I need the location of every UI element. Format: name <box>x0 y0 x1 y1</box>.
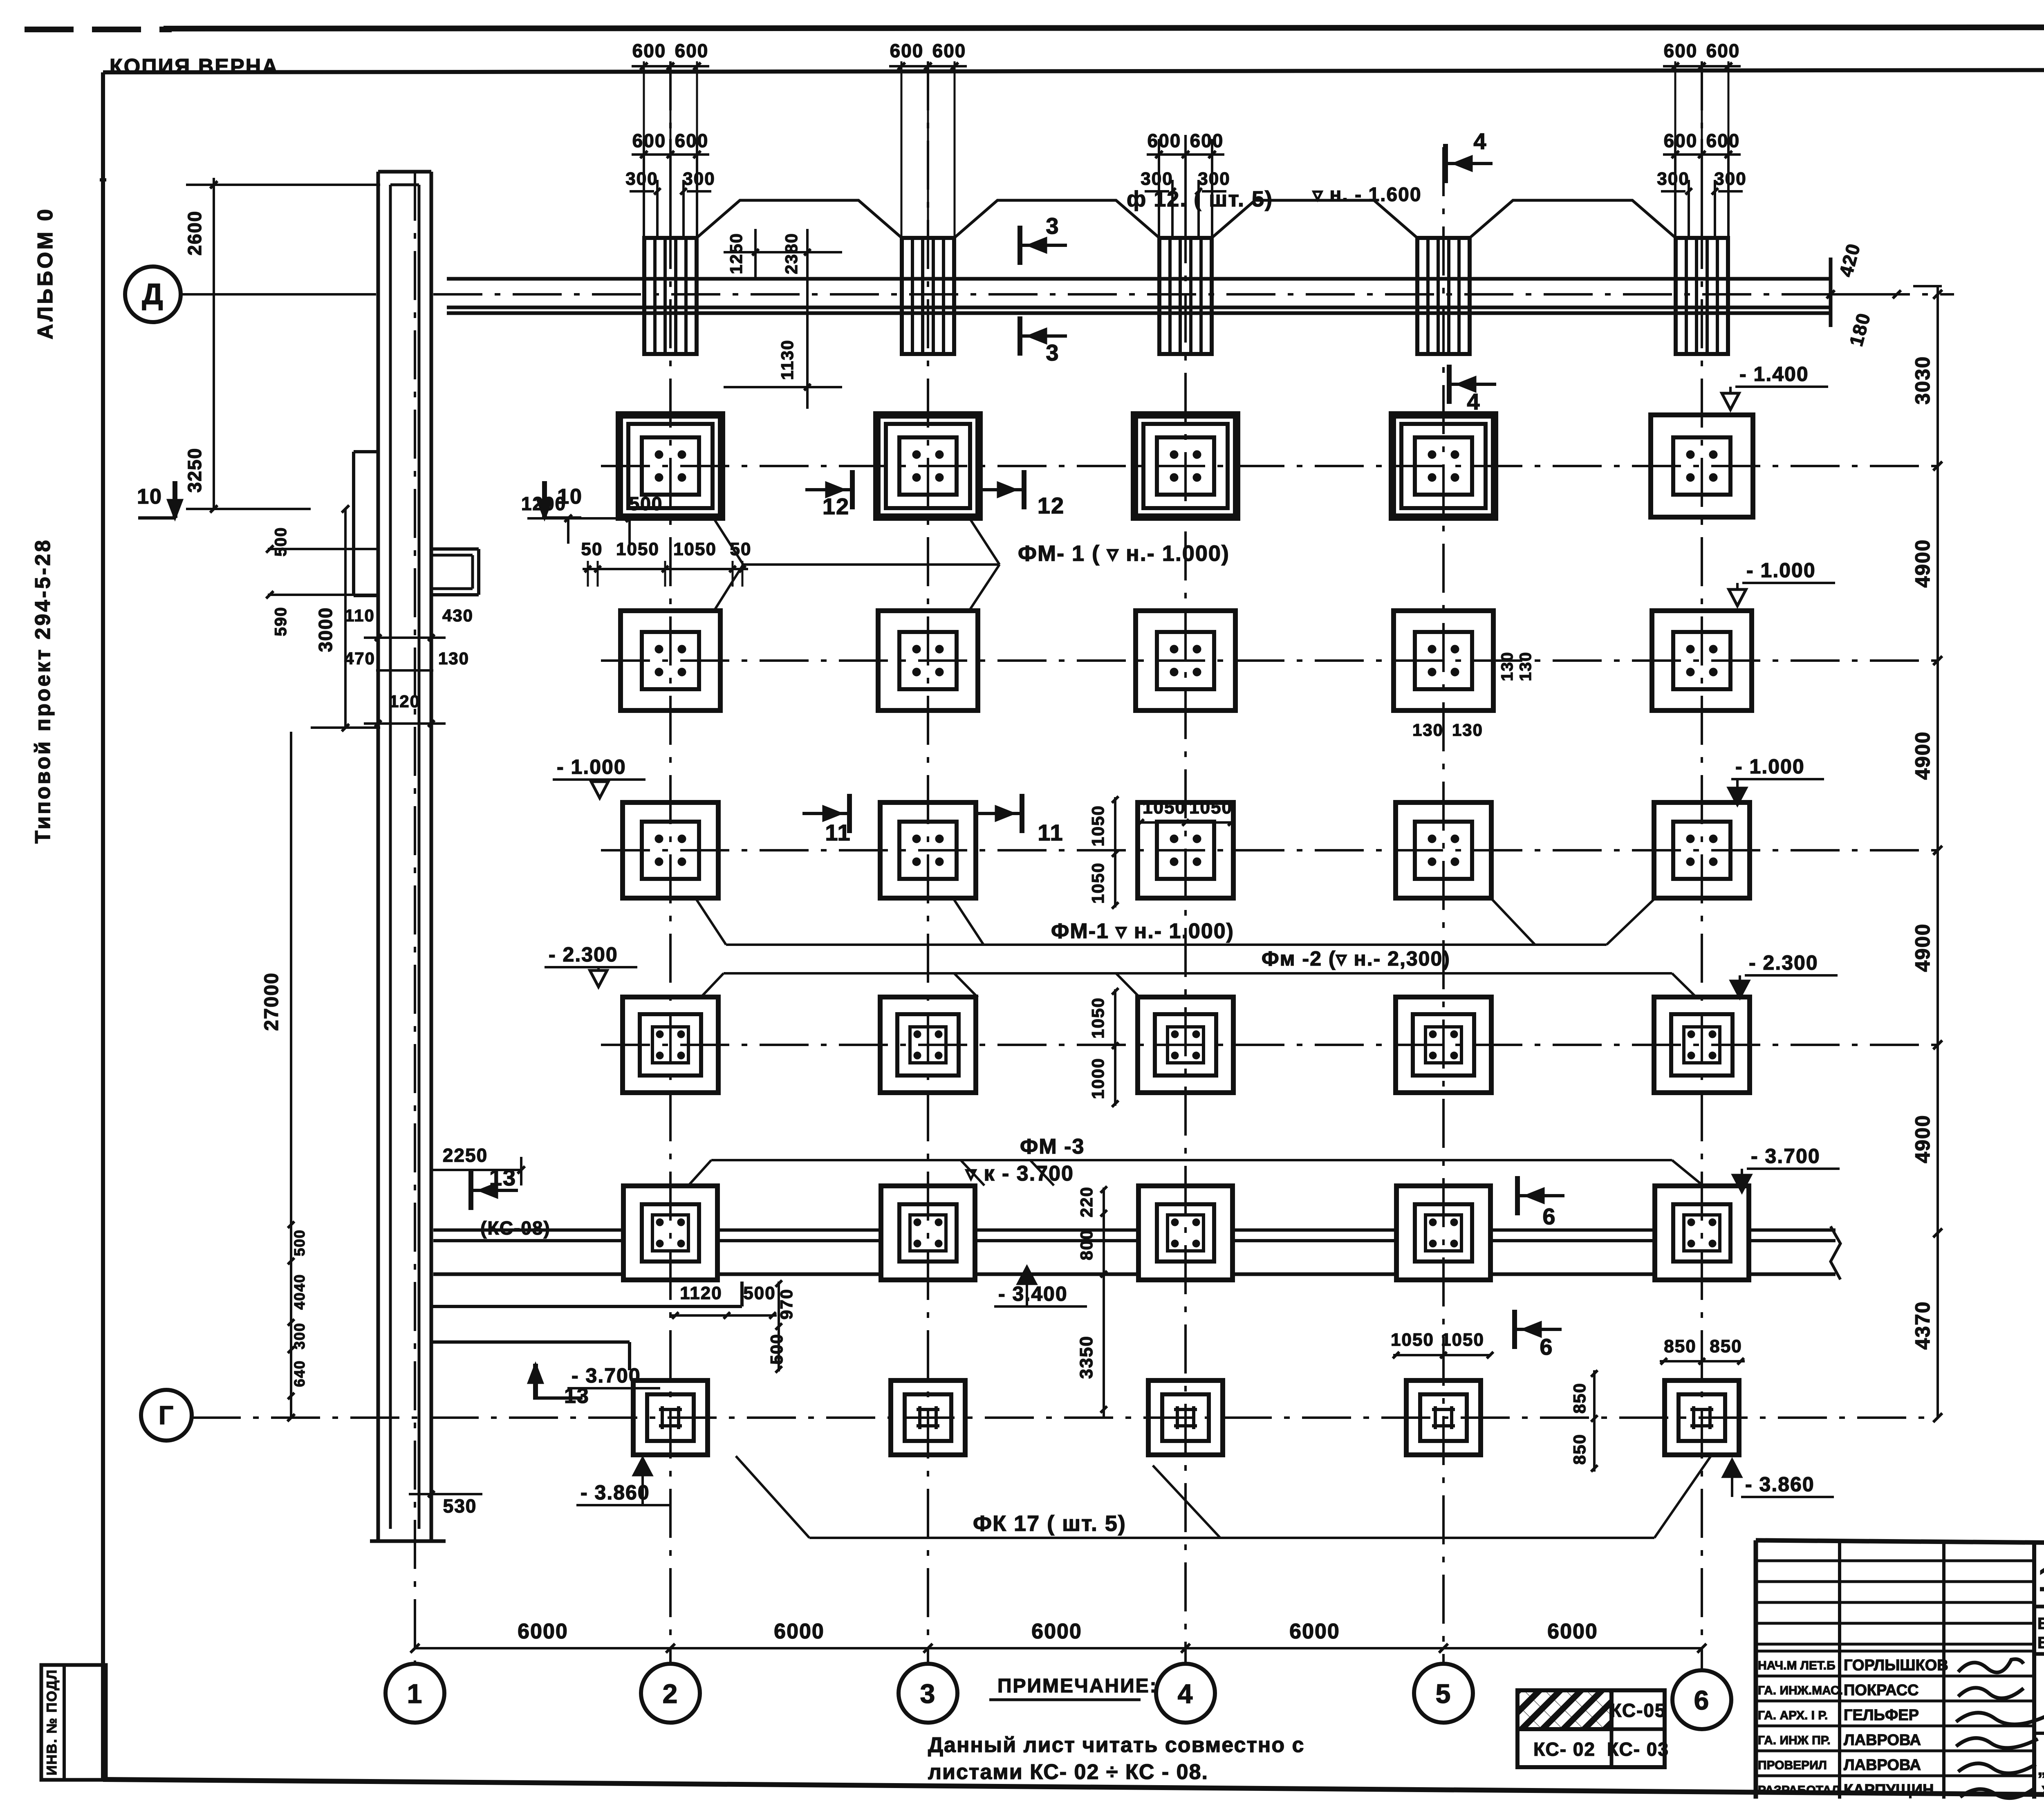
svg-text:850: 850 <box>1664 1336 1696 1356</box>
svg-text:Фм -2 (▿ н.- 2,300): Фм -2 (▿ н.- 2,300) <box>1262 947 1450 970</box>
svg-text:ГЕЛЬФЕР: ГЕЛЬФЕР <box>1844 1707 1919 1724</box>
svg-text:ФМ-1 ▿ н.- 1.000): ФМ-1 ▿ н.- 1.000) <box>1051 919 1234 943</box>
svg-text:590: 590 <box>272 607 290 636</box>
svg-text:- 3.860: - 3.860 <box>580 1481 650 1504</box>
svg-text:1000: 1000 <box>1088 1058 1107 1099</box>
svg-text:- 3.700: - 3.700 <box>572 1364 641 1387</box>
svg-text:640: 640 <box>291 1360 308 1387</box>
svg-text:130: 130 <box>1452 720 1483 739</box>
svg-text:1120: 1120 <box>680 1283 722 1303</box>
svg-text:10: 10 <box>137 485 162 509</box>
svg-text:500: 500 <box>629 493 663 514</box>
svg-text:Д: Д <box>142 278 164 311</box>
svg-text:4: 4 <box>1467 389 1480 415</box>
svg-text:3000: 3000 <box>315 607 336 652</box>
svg-text:ФМ- 1 ( ▿ н.- 1.000): ФМ- 1 ( ▿ н.- 1.000) <box>1018 541 1230 566</box>
svg-text:Г: Г <box>159 1400 174 1430</box>
svg-text:5: 5 <box>1436 1678 1452 1709</box>
svg-text:2: 2 <box>663 1678 679 1709</box>
svg-text:4900: 4900 <box>1911 731 1934 780</box>
svg-text:- 2.300: - 2.300 <box>1749 951 1818 974</box>
svg-text:800: 800 <box>1077 1229 1096 1260</box>
svg-text:▿ н. - 1.600: ▿ н. - 1.600 <box>1312 184 1422 206</box>
svg-text:1050: 1050 <box>1143 798 1186 818</box>
svg-text:530: 530 <box>443 1495 477 1517</box>
svg-text:АЛЬБОМ 0: АЛЬБОМ 0 <box>34 207 57 340</box>
svg-text:50: 50 <box>730 539 752 559</box>
svg-text:4900: 4900 <box>1911 1114 1934 1163</box>
svg-text:300: 300 <box>291 1322 308 1349</box>
svg-text:600: 600 <box>932 40 966 61</box>
svg-text:6: 6 <box>1540 1334 1553 1360</box>
svg-text:(КС-08): (КС-08) <box>480 1217 551 1239</box>
svg-text:3: 3 <box>920 1678 936 1709</box>
svg-text:300: 300 <box>1657 169 1689 189</box>
svg-text:120: 120 <box>389 692 420 711</box>
svg-text:50: 50 <box>581 539 603 559</box>
svg-text:4040: 4040 <box>291 1274 308 1310</box>
svg-text:11: 11 <box>825 820 851 845</box>
svg-text:ФМ -3: ФМ -3 <box>1020 1135 1085 1158</box>
svg-text:600: 600 <box>1148 130 1181 151</box>
svg-text:420: 420 <box>1835 241 1865 279</box>
svg-text:600: 600 <box>890 40 924 61</box>
svg-text:ГА. ИНЖ.МАС.: ГА. ИНЖ.МАС. <box>1758 1684 1843 1697</box>
svg-text:НАЧ.М ЛЕТ.Б: НАЧ.М ЛЕТ.Б <box>1758 1659 1836 1672</box>
svg-text:▿ к - 3.700: ▿ к - 3.700 <box>965 1162 1074 1185</box>
svg-text:600: 600 <box>675 130 709 151</box>
svg-text:500: 500 <box>291 1229 308 1256</box>
svg-text:ГА. ИНЖ ПР.: ГА. ИНЖ ПР. <box>1758 1734 1831 1747</box>
svg-text:6: 6 <box>1542 1203 1556 1229</box>
svg-text:„1- 6", „Г-Д". Спецификация: „1- 6", „Г-Д". Спецификация <box>2037 1759 2044 1779</box>
svg-text:6000: 6000 <box>1289 1620 1340 1643</box>
svg-text:1050: 1050 <box>616 539 659 559</box>
svg-text:- 3.400: - 3.400 <box>998 1282 1068 1305</box>
svg-text:180: 180 <box>1845 310 1875 348</box>
svg-text:1050: 1050 <box>1088 862 1107 903</box>
svg-text:600: 600 <box>1706 130 1740 151</box>
svg-text:130: 130 <box>1517 652 1535 681</box>
svg-text:6000: 6000 <box>1547 1620 1598 1643</box>
svg-text:БАССЕЙН/В ДЕРЕВОКЛЕЕННЫХ КОНСТ: БАССЕЙН/В ДЕРЕВОКЛЕЕННЫХ КОНСТРУКЦИЯХ/С … <box>2037 1614 2044 1633</box>
svg-text:470: 470 <box>344 649 375 668</box>
svg-text:- 1.000: - 1.000 <box>557 755 626 778</box>
svg-text:- 2.300: - 2.300 <box>549 943 618 966</box>
svg-text:850: 850 <box>1570 1383 1589 1414</box>
svg-text:1979: 1979 <box>2038 1560 2044 1599</box>
svg-text:1050: 1050 <box>1088 805 1107 846</box>
svg-text:ЛАВРОВА: ЛАВРОВА <box>1844 1757 1921 1774</box>
svg-text:500: 500 <box>767 1333 786 1365</box>
svg-text:ГА. АРХ. I Р.: ГА. АРХ. I Р. <box>1758 1709 1828 1722</box>
svg-text:3350: 3350 <box>1076 1335 1096 1379</box>
svg-text:- 3.700: - 3.700 <box>1751 1145 1820 1167</box>
svg-text:- 1.400: - 1.400 <box>1739 363 1809 385</box>
svg-text:4370: 4370 <box>1911 1301 1934 1349</box>
svg-text:430: 430 <box>442 606 473 625</box>
svg-text:КС- 03: КС- 03 <box>1607 1739 1669 1760</box>
svg-text:300: 300 <box>625 169 658 189</box>
svg-text:300: 300 <box>683 169 715 189</box>
svg-text:листами КС- 02 ÷ КС - 08.: листами КС- 02 ÷ КС - 08. <box>928 1760 1208 1784</box>
svg-text:600: 600 <box>1190 130 1224 151</box>
svg-text:11: 11 <box>1038 820 1063 845</box>
svg-text:- 1.000: - 1.000 <box>1746 559 1816 582</box>
svg-text:КОПИЯ ВЕРНА: КОПИЯ ВЕРНА <box>110 55 279 78</box>
svg-text:6: 6 <box>1694 1685 1710 1715</box>
svg-text:130: 130 <box>438 649 469 668</box>
svg-text:600: 600 <box>632 40 666 61</box>
svg-text:27000: 27000 <box>261 972 282 1031</box>
svg-text:500: 500 <box>272 527 290 557</box>
svg-text:850: 850 <box>1570 1434 1589 1465</box>
svg-text:4: 4 <box>1473 128 1487 154</box>
svg-text:4: 4 <box>1178 1678 1194 1709</box>
svg-text:1050: 1050 <box>1088 997 1107 1038</box>
svg-text:КАРПУЩИН: КАРПУЩИН <box>1844 1781 1934 1799</box>
svg-text:2250: 2250 <box>443 1145 488 1166</box>
svg-text:600: 600 <box>1664 130 1698 151</box>
svg-text:130: 130 <box>1498 652 1516 681</box>
svg-text:1: 1 <box>407 1678 423 1709</box>
svg-text:220: 220 <box>1077 1186 1096 1217</box>
svg-text:300: 300 <box>1198 169 1230 189</box>
svg-text:3: 3 <box>1046 340 1059 365</box>
svg-text:РАЗРАБОТАЛ: РАЗРАБОТАЛ <box>1758 1784 1840 1797</box>
svg-text:600: 600 <box>675 40 709 61</box>
svg-text:1050: 1050 <box>673 539 717 559</box>
svg-text:130: 130 <box>1412 720 1443 739</box>
svg-text:12: 12 <box>1038 493 1065 518</box>
svg-text:ИНВ. № ПОДЛ: ИНВ. № ПОДЛ <box>44 1669 60 1775</box>
svg-text:4900: 4900 <box>1911 539 1934 587</box>
svg-text:1050: 1050 <box>1441 1330 1484 1350</box>
svg-text:1050: 1050 <box>1189 798 1233 818</box>
svg-text:3030: 3030 <box>1911 356 1934 404</box>
svg-text:600: 600 <box>632 130 666 151</box>
svg-text:Типовой проект 294-5-28: Типовой проект 294-5-28 <box>31 538 55 843</box>
svg-text:6000: 6000 <box>1031 1620 1082 1643</box>
svg-text:500: 500 <box>743 1283 775 1303</box>
svg-text:10: 10 <box>557 485 583 509</box>
svg-text:6000: 6000 <box>774 1620 825 1643</box>
svg-text:железобетонных элементов: железобетонных элементов <box>2042 1779 2044 1799</box>
svg-text:- 1.000: - 1.000 <box>1735 755 1805 778</box>
svg-text:ЛАВРОВА: ЛАВРОВА <box>1844 1732 1921 1749</box>
svg-text:3250: 3250 <box>184 448 205 493</box>
svg-text:300: 300 <box>1141 169 1173 189</box>
svg-text:110: 110 <box>345 606 375 625</box>
svg-text:ВАННАМИ: 50×21М С МЕСТАМИ ДЛЯ: ВАННАМИ: 50×21М С МЕСТАМИ ДЛЯ ЗРИТЕЛЕЙ И… <box>2037 1633 2044 1652</box>
svg-text:850: 850 <box>1710 1336 1742 1356</box>
svg-text:3: 3 <box>1046 213 1059 239</box>
svg-text:- 3.860: - 3.860 <box>1745 1473 1815 1496</box>
svg-text:300: 300 <box>1714 169 1746 189</box>
svg-text:ФК 17 ( шт. 5): ФК 17 ( шт. 5) <box>973 1511 1126 1536</box>
svg-text:ПРИМЕЧАНИЕ:: ПРИМЕЧАНИЕ: <box>997 1675 1158 1697</box>
svg-text:600: 600 <box>1664 40 1698 61</box>
svg-text:6000: 6000 <box>518 1620 568 1643</box>
svg-text:КС-05: КС-05 <box>1610 1700 1666 1721</box>
svg-text:ПОКРАСС: ПОКРАСС <box>1844 1682 1918 1699</box>
svg-text:2600: 2600 <box>184 211 205 255</box>
svg-text:ПРОВЕРИЛ: ПРОВЕРИЛ <box>1758 1759 1827 1772</box>
svg-text:12: 12 <box>823 493 849 519</box>
svg-text:4900: 4900 <box>1911 923 1934 972</box>
svg-text:1130: 1130 <box>778 339 797 380</box>
svg-text:ГОРЛЫШКОВ: ГОРЛЫШКОВ <box>1844 1657 1948 1674</box>
svg-text:13: 13 <box>489 1165 516 1190</box>
svg-text:2380: 2380 <box>782 233 801 274</box>
svg-text:Данный лист читать совместн: Данный лист читать совместно с <box>928 1733 1304 1757</box>
svg-text:600: 600 <box>1706 40 1740 61</box>
svg-text:1050: 1050 <box>1391 1330 1434 1350</box>
svg-text:КС- 02: КС- 02 <box>1533 1739 1596 1760</box>
svg-text:1250: 1250 <box>726 233 746 274</box>
